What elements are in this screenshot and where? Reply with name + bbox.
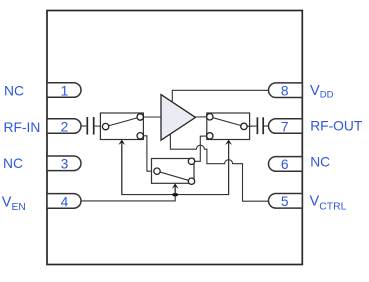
svg-text:7: 7 bbox=[281, 119, 289, 134]
wire C1 to input switch bbox=[95, 125, 106, 127]
svg-text:3: 3 bbox=[61, 157, 69, 172]
pin 8 bbox=[269, 83, 303, 99]
pin 3 bbox=[47, 156, 81, 172]
svg-text:NC: NC bbox=[4, 84, 24, 99]
input switch SW1 arm bbox=[106, 117, 141, 127]
pin 4 bbox=[47, 194, 81, 210]
bypass switch SW3 box bbox=[152, 159, 195, 184]
bypass switch SW3 arm bbox=[157, 171, 192, 181]
arrow into SW1 (control) bbox=[118, 140, 125, 195]
wire pin2 to C1 bbox=[80, 125, 86, 127]
wire C2 to pin 7 bbox=[264, 125, 271, 127]
SW1 contact circles bbox=[102, 114, 143, 139]
wire pin 4 VEN to switch control rail bbox=[80, 188, 175, 201]
svg-text:NC: NC bbox=[3, 156, 23, 171]
capacitor C2 (output DC block) bbox=[257, 117, 263, 134]
wire amplifier VDD tap to pin 8 bbox=[172, 90, 268, 102]
svg-text:RF-OUT: RF-OUT bbox=[310, 119, 363, 134]
control rail wire (VEN net) bbox=[122, 144, 229, 195]
label VCTRL pin5 bbox=[310, 194, 347, 213]
svg-text:VCTRL: VCTRL bbox=[310, 194, 347, 213]
amplifier U1 bbox=[161, 95, 196, 141]
arrow into SW3 (control) bbox=[172, 183, 179, 194]
wire SW2 common to C2 bbox=[244, 125, 257, 127]
wire SW1 bottom throw to bypass switch common bbox=[140, 136, 157, 171]
wire amplifier output to output switch bbox=[196, 116, 210, 118]
label RF-IN pin2 bbox=[4, 120, 41, 135]
svg-text:2: 2 bbox=[61, 119, 69, 134]
pin 2 bbox=[47, 119, 81, 135]
output switch SW2 box bbox=[207, 113, 250, 140]
svg-text:6: 6 bbox=[281, 157, 289, 172]
pin 5 bbox=[269, 194, 303, 210]
arrow into SW2 (control) bbox=[225, 140, 232, 195]
svg-text:VEN: VEN bbox=[2, 194, 26, 213]
label VDD pin8 bbox=[310, 83, 334, 100]
label VEN pin4 bbox=[2, 194, 26, 213]
svg-text:4: 4 bbox=[61, 194, 69, 209]
capacitor C1 (input DC block) bbox=[87, 117, 93, 135]
svg-text:5: 5 bbox=[281, 194, 289, 209]
package outline border bbox=[47, 11, 302, 265]
svg-text:NC: NC bbox=[310, 154, 330, 169]
SW2 contact circles bbox=[207, 114, 247, 139]
label NC pin3 bbox=[3, 156, 23, 171]
svg-text:VDD: VDD bbox=[310, 83, 334, 100]
wire SW1 top throw to amplifier input bbox=[140, 116, 161, 118]
wire bypass switch top throw to SW2 bottom throw bbox=[192, 136, 210, 161]
SW3 contact circles bbox=[154, 158, 195, 184]
output switch SW2 arm bbox=[210, 117, 244, 127]
label RF-OUT pin7 bbox=[310, 119, 363, 134]
pin 1 bbox=[47, 83, 81, 99]
junction dot VEN node bbox=[172, 193, 178, 197]
svg-text:RF-IN: RF-IN bbox=[4, 120, 41, 135]
label NC pin6 bbox=[310, 154, 330, 169]
input switch SW1 box bbox=[100, 113, 143, 140]
svg-text:1: 1 bbox=[61, 83, 69, 98]
pin 7 bbox=[269, 119, 303, 135]
svg-text:8: 8 bbox=[281, 84, 289, 99]
wire amplifier control to pin 5 VCTRL (with two hops) bbox=[170, 134, 270, 201]
label NC pin1 bbox=[4, 84, 24, 99]
pin 6 bbox=[269, 157, 303, 173]
